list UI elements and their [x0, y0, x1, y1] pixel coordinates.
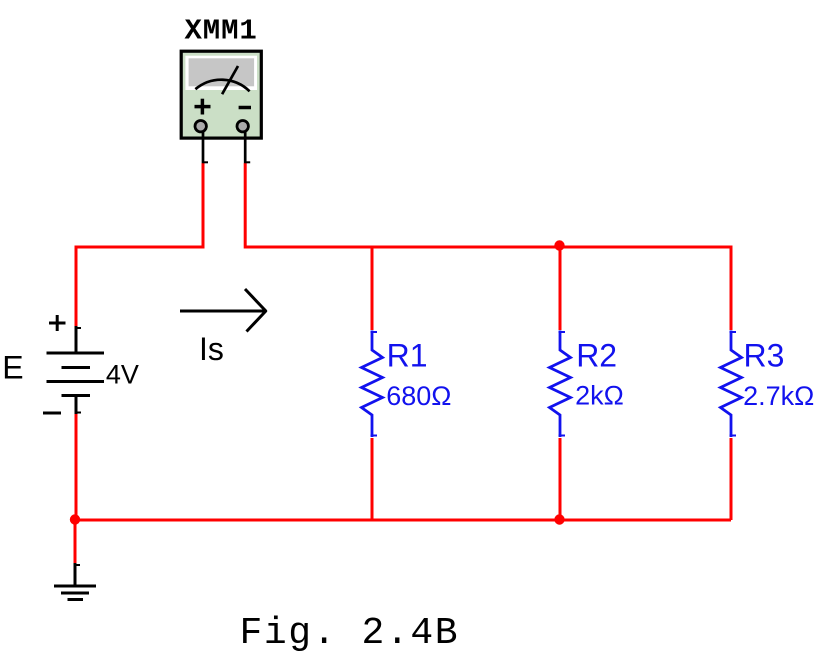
svg-text:2kΩ: 2kΩ	[575, 381, 624, 411]
resistor R2	[550, 331, 571, 438]
multimeter + terminal post	[195, 121, 206, 132]
svg-text:R3: R3	[744, 338, 785, 374]
multimeter plus terminal label	[195, 99, 211, 115]
wire: bottom rail	[75, 519, 731, 522]
svg-text:Is: Is	[199, 331, 224, 367]
junction dot: bottom of R2	[554, 514, 564, 524]
label R2	[576, 338, 617, 374]
value label 2.7kΩ	[743, 381, 814, 411]
label R1	[387, 338, 428, 374]
multimeter scale arc	[195, 80, 249, 92]
svg-text:680Ω: 680Ω	[386, 381, 451, 411]
resistor R1	[362, 331, 383, 438]
svg-text:4V: 4V	[106, 360, 139, 390]
junction dot: top of R2	[554, 240, 564, 250]
value label 2kΩ	[575, 381, 624, 411]
current arrow Is	[180, 289, 266, 332]
wire net: multimeter - to top rail (to R1 R2 R3)	[245, 163, 731, 330]
svg-text:XMM1: XMM1	[185, 15, 258, 48]
junction dot: bottom rail at ground	[70, 514, 80, 524]
svg-text:R2: R2	[576, 338, 617, 374]
caption Fig. 2.4B	[240, 612, 460, 655]
wire: R3 bottom drop	[730, 438, 733, 520]
svg-text:R1: R1	[387, 338, 428, 374]
label Is	[199, 331, 224, 367]
battery plus sign	[49, 315, 66, 331]
svg-text:E: E	[2, 350, 23, 386]
wire: battery negative drop to bottom rail	[75, 414, 78, 520]
multimeter XMM1 body	[181, 51, 261, 138]
multimeter + pin wire	[202, 132, 208, 164]
wire: R1 bottom drop	[371, 438, 374, 520]
wire: R2 top drop	[559, 246, 562, 330]
label R3	[744, 338, 785, 374]
wire: R2 bottom drop	[559, 438, 562, 520]
ground	[54, 563, 96, 600]
value label 680Ω	[386, 381, 451, 411]
multimeter minus terminal label	[239, 106, 251, 110]
label XMM1	[185, 15, 258, 48]
value label 4V	[106, 360, 139, 390]
label E	[2, 350, 23, 386]
battery minus sign	[43, 412, 61, 415]
svg-text:2.7kΩ: 2.7kΩ	[743, 381, 814, 411]
battery E (DC source)	[47, 326, 105, 414]
wire: R1 top drop	[371, 247, 374, 330]
multimeter needle	[222, 66, 238, 94]
wire: ground drop	[74, 520, 77, 564]
multimeter display	[185, 56, 257, 90]
multimeter - pin wire	[244, 132, 250, 164]
resistor R3	[721, 331, 742, 438]
wire net: battery positive to multimeter + (left top rail)	[76, 163, 203, 327]
multimeter - terminal post	[237, 121, 248, 132]
svg-text:Fig. 2.4B: Fig. 2.4B	[240, 612, 460, 655]
